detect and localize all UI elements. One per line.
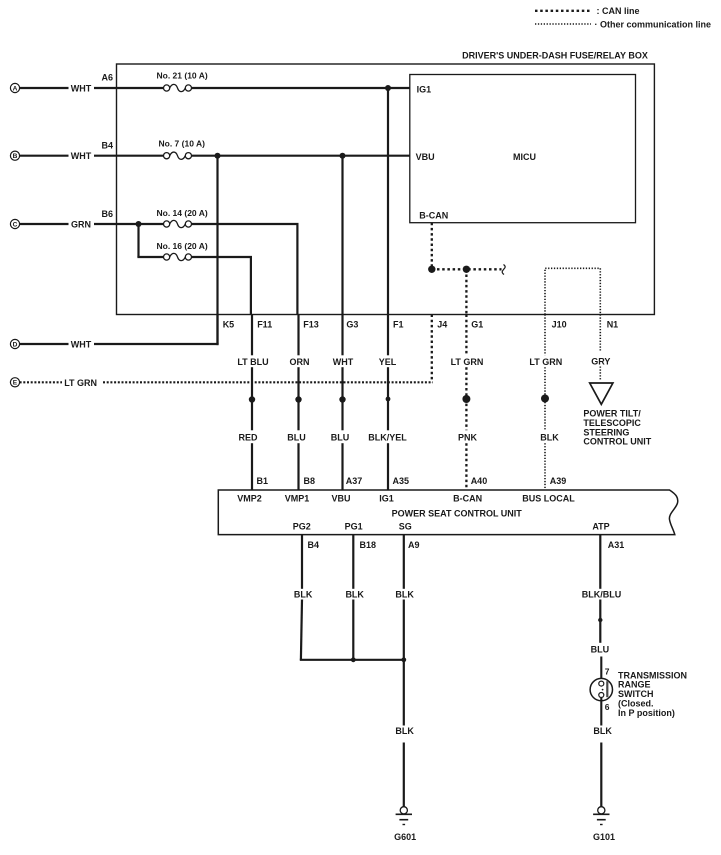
wire A31 column to splice: [599, 600, 601, 643]
dotted wire N1 column to steering unit: [599, 315, 601, 351]
wire into fuse No.16: [137, 256, 163, 258]
wire F1 column to PSCU A35: [387, 315, 389, 356]
svg-text:WHT: WHT: [333, 357, 354, 367]
splice node F13 column: [295, 396, 301, 402]
svg-text:TRANSMISSIONRANGESWITCH(Closed: TRANSMISSIONRANGESWITCH(Closed.In P posi…: [618, 670, 687, 718]
wire row A WHT segment from terminal A: [20, 87, 69, 89]
wire K5 column from row B down to row D: [216, 156, 218, 345]
svg-text:A31: A31: [608, 540, 625, 550]
junction node row B / G3 column: [340, 153, 346, 159]
svg-text:BLK: BLK: [593, 726, 612, 736]
svg-text:N1: N1: [607, 319, 619, 329]
splice node A31 column: [598, 618, 602, 622]
junction node B-CAN / G1: [463, 266, 470, 273]
svg-text:POWER SEAT CONTROL UNIT: POWER SEAT CONTROL UNIT: [392, 508, 523, 518]
svg-text:VMP1: VMP1: [285, 494, 310, 504]
svg-text:F1: F1: [393, 319, 404, 329]
svg-text:G3: G3: [346, 319, 358, 329]
svg-text:ATP: ATP: [592, 521, 609, 531]
svg-text:WHT: WHT: [71, 83, 92, 93]
splice node G3 column: [339, 396, 345, 402]
svg-text:A35: A35: [393, 476, 410, 486]
junction node B18 merge: [351, 657, 356, 662]
dotted communication wire J10 to N1 bridge: [545, 268, 600, 314]
connector terminal A: [10, 83, 19, 92]
svg-text:BLK: BLK: [294, 589, 313, 599]
svg-text:J4: J4: [437, 319, 447, 329]
wire B4 column upper: [301, 535, 303, 589]
svg-text:A39: A39: [550, 476, 567, 486]
wire B4 column to merge corner: [301, 600, 302, 660]
wire from switch down: [600, 698, 602, 726]
connector terminal B: [10, 151, 19, 160]
wire G3 column inside box: [341, 156, 343, 315]
B-CAN dotted wire from MICU down: [431, 223, 433, 270]
svg-text:No. 14 (20 A): No. 14 (20 A): [157, 208, 208, 218]
svg-text:F11: F11: [257, 319, 272, 329]
svg-text:BLK/YEL: BLK/YEL: [368, 433, 407, 443]
wire A9 column upper: [403, 535, 405, 589]
wire G3 column to PSCU A37: [341, 315, 343, 356]
svg-text:B8: B8: [304, 476, 316, 486]
svg-text:YEL: YEL: [379, 357, 397, 367]
splice node F1 column: [386, 397, 391, 402]
svg-text:BLK: BLK: [345, 589, 364, 599]
svg-text:B-CAN: B-CAN: [419, 210, 448, 220]
svg-text:· Other communication line: · Other communication line: [595, 20, 712, 30]
ground G101: [593, 807, 615, 842]
wire B18 column to merge: [352, 600, 354, 660]
svg-text:B4: B4: [102, 141, 114, 151]
svg-text:BUS LOCAL: BUS LOCAL: [522, 494, 575, 504]
B-CAN dotted wire G1 down to box bottom: [465, 269, 467, 314]
svg-text:D: D: [13, 341, 18, 348]
svg-text:G1: G1: [471, 319, 483, 329]
svg-text:MICU: MICU: [513, 152, 536, 162]
svg-text:C: C: [13, 221, 18, 228]
svg-text:VMP2: VMP2: [237, 494, 262, 504]
legend CAN line sample (bold dotted): [535, 10, 590, 12]
ground G601: [394, 807, 416, 842]
svg-text:A37: A37: [346, 476, 363, 486]
dotted wire G1 column to PSCU A40: [465, 315, 467, 356]
svg-text:No. 16 (20 A): No. 16 (20 A): [157, 241, 208, 251]
svg-text:WHT: WHT: [71, 151, 92, 161]
connector terminal C: [10, 219, 19, 228]
svg-text:A40: A40: [471, 476, 488, 486]
svg-text:No. 7 (10 A): No. 7 (10 A): [159, 139, 206, 149]
svg-text:No. 21 (10 A): No. 21 (10 A): [157, 70, 208, 80]
svg-text:BLK: BLK: [395, 589, 414, 599]
junction node row A / F1 column: [385, 85, 391, 91]
wire row A from fuse to MICU IG1: [191, 87, 409, 89]
svg-text:IG1: IG1: [417, 85, 432, 95]
svg-text:LT GRN: LT GRN: [451, 357, 484, 367]
svg-text:GRN: GRN: [71, 219, 91, 229]
dotted wire J10 column to PSCU A39: [544, 315, 546, 356]
svg-text:BLK: BLK: [540, 433, 559, 443]
wire to ground G601: [403, 743, 405, 807]
wire BLU to transmission range switch: [600, 657, 602, 682]
svg-text:: CAN line: : CAN line: [597, 6, 640, 16]
junction node B-CAN / J4: [428, 266, 435, 273]
svg-text:J10: J10: [552, 319, 567, 329]
svg-text:6: 6: [605, 702, 610, 712]
MICU box outline: [410, 75, 636, 223]
transmission range switch: [590, 678, 612, 700]
svg-text:SG: SG: [399, 521, 412, 531]
svg-text:LT GRN: LT GRN: [64, 378, 97, 388]
svg-text:WHT: WHT: [71, 339, 92, 349]
wire to ground G101: [600, 743, 602, 807]
wire K5 below box to row D: [216, 315, 218, 345]
power seat control unit box outline: [218, 490, 677, 535]
svg-text:LT BLU: LT BLU: [237, 357, 268, 367]
svg-text:G601: G601: [394, 832, 416, 842]
connector terminal E: [10, 378, 19, 387]
dotted wire row E from terminal E: [20, 381, 62, 383]
B-CAN continuation squiggle: [502, 265, 505, 275]
svg-text:A9: A9: [408, 540, 420, 550]
svg-text:BLU: BLU: [591, 644, 610, 654]
svg-text:LT GRN: LT GRN: [529, 357, 562, 367]
svg-text:G101: G101: [593, 832, 615, 842]
svg-text:IG1: IG1: [379, 494, 394, 504]
wire row D WHT segment from terminal D: [20, 343, 69, 345]
dotted wire row E to J4 column: [103, 381, 433, 383]
B-CAN dotted wire across to G1: [432, 268, 502, 270]
splice node G1 column: [462, 395, 470, 403]
junction node row B / K5 column: [215, 153, 221, 159]
svg-text:PG1: PG1: [345, 521, 363, 531]
splice node F11 column: [249, 396, 255, 402]
svg-text:B-CAN: B-CAN: [453, 494, 482, 504]
svg-text:B6: B6: [102, 209, 114, 219]
svg-text:B: B: [13, 153, 18, 160]
wire row B into fuse box: [94, 155, 164, 157]
splice node J10 column: [541, 395, 549, 403]
svg-text:DRIVER'S UNDER-DASH FUSE/RELAY: DRIVER'S UNDER-DASH FUSE/RELAY BOX: [462, 50, 648, 60]
wire from fuse No.16 to F11 column corner: [191, 256, 252, 258]
fuse No. 14 (20 A): [157, 208, 208, 228]
wire F11 column inside box: [250, 257, 252, 315]
ground merge wire: [300, 659, 404, 661]
svg-text:RED: RED: [238, 433, 258, 443]
svg-text:PG2: PG2: [293, 521, 311, 531]
svg-text:GRY: GRY: [591, 356, 610, 366]
svg-text:POWER TILT/TELESCOPICSTEERINGC: POWER TILT/TELESCOPICSTEERINGCONTROL UNI…: [583, 409, 651, 447]
junction node row C branch: [136, 221, 142, 227]
svg-text:B4: B4: [308, 540, 320, 550]
wire row C into fuse box: [94, 223, 164, 225]
wire row B WHT segment from terminal B: [20, 155, 69, 157]
wire row D to K5 column: [94, 343, 219, 345]
svg-text:BLK/BLU: BLK/BLU: [582, 589, 622, 599]
wire F13 column to PSCU B8: [297, 315, 299, 356]
wire F13 column inside box: [296, 224, 298, 315]
svg-text:A: A: [13, 85, 18, 92]
wire row C from fuse No.14 to F13 column corner: [191, 223, 298, 225]
svg-text:7: 7: [605, 667, 610, 677]
svg-text:ORN: ORN: [290, 357, 310, 367]
junction node A9 merge: [401, 657, 406, 662]
wire F1 column inside box: [387, 88, 389, 315]
svg-text:B1: B1: [257, 476, 269, 486]
svg-text:A6: A6: [102, 73, 114, 83]
svg-text:K5: K5: [223, 319, 235, 329]
wire row C GRN segment from terminal C: [20, 223, 69, 225]
fuse No. 7 (10 A): [159, 139, 206, 160]
svg-text:E: E: [13, 380, 18, 387]
wire B18 column upper: [352, 535, 354, 589]
power tilt/telescopic steering control unit symbol: [590, 383, 613, 404]
svg-text:VBU: VBU: [416, 152, 435, 162]
wire A9 column down: [403, 600, 405, 726]
svg-text:BLU: BLU: [287, 433, 306, 443]
svg-text:B18: B18: [360, 540, 377, 550]
wire row B from fuse to MICU VBU: [191, 155, 409, 157]
fuse No. 16 (20 A): [157, 241, 208, 261]
svg-text:PNK: PNK: [458, 433, 478, 443]
svg-text:F13: F13: [303, 319, 319, 329]
fuse No. 21 (10 A): [157, 70, 208, 91]
wire A31 column upper: [599, 535, 601, 589]
wire branch down to fuse No.16: [137, 224, 139, 257]
svg-text:BLK: BLK: [395, 726, 414, 736]
connector terminal D: [10, 339, 19, 348]
wire row A into fuse box: [94, 87, 164, 89]
dotted wire J4 column below box to row E: [431, 315, 433, 383]
svg-text:BLU: BLU: [331, 433, 350, 443]
wire F11 column to PSCU B1: [251, 315, 253, 356]
driver's under-dash fuse/relay box outline: [117, 64, 655, 315]
svg-text:VBU: VBU: [331, 494, 350, 504]
legend other-communication sample (fine dotted): [535, 23, 591, 25]
